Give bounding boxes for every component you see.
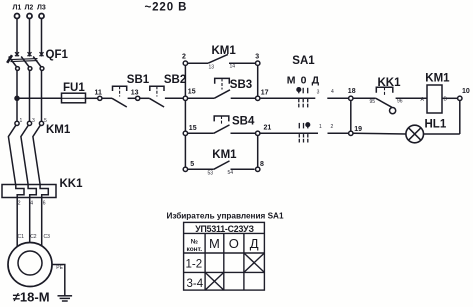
svg-text:3: 3 <box>32 118 35 124</box>
svg-text:KM1: KM1 <box>212 45 237 57</box>
svg-text:SB4: SB4 <box>232 115 255 127</box>
svg-text:3-4: 3-4 <box>187 278 204 290</box>
svg-text:О: О <box>229 236 239 251</box>
svg-text:17: 17 <box>261 90 269 97</box>
svg-text:11: 11 <box>95 90 103 97</box>
svg-text:15: 15 <box>189 125 197 132</box>
svg-text:KK1: KK1 <box>60 178 84 190</box>
svg-text:3: 3 <box>255 54 259 61</box>
svg-text:1: 1 <box>319 124 322 130</box>
svg-text:18: 18 <box>348 88 356 95</box>
svg-text:8: 8 <box>260 161 264 168</box>
svg-text:C1: C1 <box>18 234 25 240</box>
svg-text:4: 4 <box>30 200 33 206</box>
svg-text:C3: C3 <box>44 234 51 240</box>
svg-text:KM1: KM1 <box>425 73 450 85</box>
svg-text:2: 2 <box>182 54 186 61</box>
svg-text:HL1: HL1 <box>425 119 447 131</box>
svg-text:4: 4 <box>331 89 334 95</box>
svg-text:УП5311-С23УЗ: УП5311-С23УЗ <box>195 224 254 234</box>
svg-text:FU1: FU1 <box>63 82 85 94</box>
svg-text:13: 13 <box>209 64 215 70</box>
svg-text:6: 6 <box>43 200 46 206</box>
svg-text:1-2: 1-2 <box>186 259 203 271</box>
svg-text:1: 1 <box>20 118 23 124</box>
svg-text:5: 5 <box>44 118 47 124</box>
svg-text:Л2: Л2 <box>25 5 34 12</box>
svg-text:Избиратель управления SA1: Избиратель управления SA1 <box>166 211 283 221</box>
svg-text:95: 95 <box>370 99 376 105</box>
svg-text:~220 В: ~220 В <box>145 2 188 14</box>
svg-text:≠18-М: ≠18-М <box>13 290 50 305</box>
svg-text:53: 53 <box>208 170 214 176</box>
svg-text:конт.: конт. <box>187 246 203 253</box>
svg-text:SA1: SA1 <box>292 55 315 67</box>
svg-text:KM1: KM1 <box>212 149 237 161</box>
svg-text:М 0 Д: М 0 Д <box>287 75 320 87</box>
svg-text:15: 15 <box>188 89 196 96</box>
svg-text:KM1: KM1 <box>46 124 71 136</box>
svg-text:PE: PE <box>56 265 63 271</box>
svg-text:21: 21 <box>264 124 272 131</box>
svg-text:Л3: Л3 <box>37 5 46 12</box>
svg-text:5: 5 <box>190 161 194 168</box>
svg-text:SB3: SB3 <box>230 79 252 91</box>
svg-text:2: 2 <box>331 124 334 130</box>
svg-text:QF1: QF1 <box>46 49 69 61</box>
svg-text:C2: C2 <box>30 234 37 240</box>
svg-text:54: 54 <box>228 170 234 176</box>
svg-text:Л1: Л1 <box>13 5 22 12</box>
svg-text:№: № <box>191 239 198 246</box>
svg-text:13: 13 <box>131 90 139 97</box>
svg-text:10: 10 <box>462 88 470 95</box>
svg-text:SB2: SB2 <box>164 74 186 86</box>
svg-text:Д: Д <box>250 236 259 251</box>
svg-text:14: 14 <box>230 64 236 70</box>
svg-text:3: 3 <box>317 89 320 95</box>
svg-text:SB1: SB1 <box>127 74 150 86</box>
svg-text:М: М <box>209 236 220 251</box>
svg-text:96: 96 <box>397 99 403 105</box>
svg-text:2: 2 <box>18 200 21 206</box>
svg-text:19: 19 <box>354 126 362 133</box>
svg-text:KK1: KK1 <box>378 77 402 89</box>
